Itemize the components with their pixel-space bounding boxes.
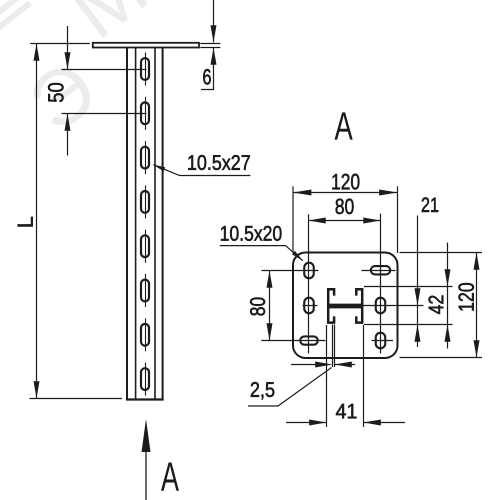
row1 centerline right <box>362 270 396 272</box>
slot 1 centerline <box>145 53 147 86</box>
H left wall + hooks <box>328 289 334 322</box>
slot top-right horizontal <box>371 266 390 274</box>
column bottom edge <box>126 398 164 400</box>
dim 21 vertical <box>417 216 419 348</box>
H profile (strut cross-section) <box>328 289 362 322</box>
ext plate bottom right <box>200 47 220 49</box>
row2 dash mid-left slot <box>303 305 318 307</box>
arrow L top (up) <box>34 44 40 61</box>
slot 8 10.5x27 <box>141 368 149 390</box>
arrow 21 lower (up at H bottom) <box>415 325 421 342</box>
plate outline <box>293 253 398 359</box>
slot 4 10.5x27 <box>141 191 149 213</box>
dim 2,5 lines <box>332 325 334 368</box>
arrow 80 top right <box>363 218 380 224</box>
text 120 <box>458 283 473 311</box>
row3 centerline left <box>261 340 325 342</box>
column lip line left <box>135 48 137 400</box>
arrow 41 right (left-pointing) <box>364 420 381 426</box>
text 50 <box>48 83 63 102</box>
slot 7 10.5x27 <box>141 324 149 346</box>
arrow 80 left bottom (down) <box>267 323 273 340</box>
column lip line right <box>154 48 156 400</box>
arrow L bottom (down) <box>34 381 40 398</box>
arrow 120 right top (up) <box>474 253 480 270</box>
ext plate bottom right <box>400 357 483 359</box>
dim 6 vertical top <box>213 0 215 42</box>
slot 3 10.5x27 <box>141 147 149 169</box>
arrow 120 right bottom (down) <box>474 340 480 357</box>
text 80 <box>250 298 265 316</box>
dim 80 left line <box>269 271 271 341</box>
slot mid-left vertical <box>304 298 314 314</box>
dim 41 line + tails <box>286 422 327 424</box>
arrow 41 left (right-pointing) <box>309 420 326 426</box>
watermark <box>26 58 101 134</box>
ext 120 top right <box>397 186 399 253</box>
slot 4 centerline <box>145 185 147 218</box>
leader arrow 10.5x27 <box>152 164 165 171</box>
text 41 <box>336 404 357 418</box>
H right wall + hooks <box>356 289 362 322</box>
section arrow line <box>145 448 147 500</box>
slot 6 centerline <box>145 274 147 307</box>
column outer right edge <box>162 48 164 400</box>
row line slot2 (50) <box>62 113 147 115</box>
text 6 <box>203 69 211 84</box>
text 120 <box>332 174 359 190</box>
arrow 6 top (down) <box>211 25 217 42</box>
text A <box>334 112 352 139</box>
row2 centerline right (H mid) <box>364 305 424 307</box>
slot mid-right vertical <box>376 298 386 314</box>
ext line top (L) <box>30 43 90 45</box>
section arrow A (up) <box>142 419 151 452</box>
slot 6 10.5x27 <box>141 280 149 302</box>
dim 80 top line <box>309 220 381 222</box>
slot 1 10.5x27 <box>141 58 149 80</box>
H middle web (double) <box>327 304 363 309</box>
slots of column with centerlines <box>141 53 149 396</box>
column outer left edge <box>126 48 128 400</box>
slot bottom-left horizontal <box>300 336 318 344</box>
col1 centerline <box>308 214 310 353</box>
arrow 120 top right <box>379 190 397 196</box>
text A <box>161 462 179 490</box>
ext plate top right <box>200 43 220 45</box>
arrow 80 left top (up) <box>267 271 273 288</box>
leader 10.5x20 <box>220 246 303 261</box>
text 2,5 <box>251 382 274 399</box>
arrow 21 upper (down at row2) <box>415 288 421 305</box>
arrow 120 top left <box>293 190 311 196</box>
dim line L <box>36 44 38 399</box>
row3 dash bottom-right slot <box>372 340 394 342</box>
ext H top right <box>364 286 453 288</box>
leader 10.5x27 <box>154 165 251 176</box>
arrow 2,5 right (left-pointing) <box>335 362 352 368</box>
arrow 50 top (down, outside) <box>65 52 71 69</box>
text 10.5x20 <box>221 226 282 241</box>
slot 2 centerline <box>145 97 147 130</box>
ext 120 top left <box>292 186 294 253</box>
dim 120 top line <box>293 192 398 194</box>
arrow 50 bottom (up, outside) <box>65 114 71 131</box>
dim 50 tail top <box>67 26 69 70</box>
ext plate top right <box>400 252 483 254</box>
arrow 2,5 left (right-pointing) <box>315 362 332 368</box>
text L <box>18 217 33 226</box>
dim 50 tail bottom <box>67 114 69 156</box>
row1 centerline left <box>262 270 319 272</box>
ext 41 right <box>363 325 365 427</box>
text 80 <box>336 199 354 214</box>
arrow 42 upper (down at H top) <box>445 269 451 286</box>
dim 2,5 arrow tails <box>291 364 318 366</box>
arrow 6 bottom (up) <box>211 48 217 65</box>
arrow 80 top left <box>309 218 326 224</box>
leader 2,5 <box>248 368 332 407</box>
slot 7 centerline <box>145 318 147 351</box>
slot 3 centerline <box>145 141 147 174</box>
leader arrow 10.5x20 <box>292 251 303 261</box>
top plate (side view) <box>93 43 199 48</box>
text 21 <box>422 197 438 211</box>
slot 5 centerline <box>145 230 147 263</box>
slot bottom-right vertical <box>376 333 386 349</box>
row line slot1 (50) <box>62 69 147 71</box>
text 10.5x27 <box>188 155 250 170</box>
dim 6 vertical bottom + shelf <box>201 48 214 90</box>
col2 centerline <box>380 214 382 354</box>
arrow 42 lower (up at H bottom) <box>445 325 451 342</box>
ext line bottom (L) <box>30 398 123 400</box>
slot 2 10.5x27 <box>141 102 149 124</box>
text 42 <box>429 296 444 314</box>
dim 42 vertical <box>447 243 449 349</box>
dim 120 right vertical <box>476 253 478 358</box>
slot 8 centerline <box>145 363 147 396</box>
slot top-left vertical <box>304 263 314 279</box>
ext 41 left <box>326 325 328 427</box>
slot 5 10.5x27 <box>141 235 149 257</box>
ext H bottom right <box>364 324 453 326</box>
